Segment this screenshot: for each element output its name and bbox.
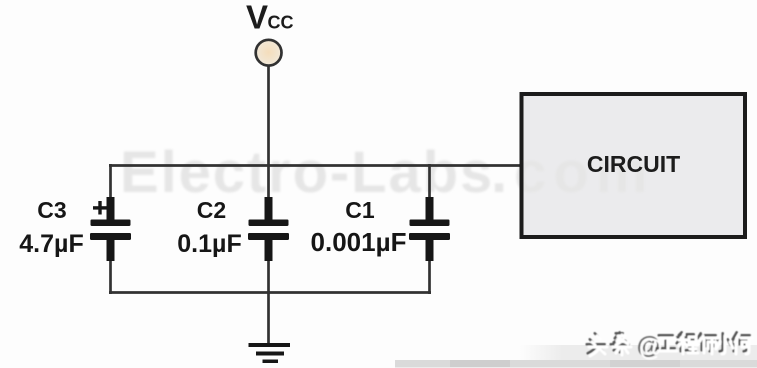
capacitor C2 [248,197,289,261]
net label Vcc [246,0,294,36]
svg-text:4.7µF: 4.7µF [19,230,83,258]
capacitor C1 [409,197,450,261]
wire ground drop [267,291,270,344]
svg-text:0.1µF: 0.1µF [177,230,241,258]
wire Vcc to C2 [267,66,270,200]
wire bottom bus [109,291,431,294]
svg-text:C3: C3 [37,197,66,223]
svg-text:@: @ [639,335,662,362]
svg-text:CC: CC [268,13,294,33]
wire C3 top lead [109,164,112,200]
wire C3 bottom lead [109,258,112,294]
wire C1 top lead [428,164,431,200]
svg-text:CIRCUIT: CIRCUIT [587,151,680,177]
capacitor C3 [90,197,131,261]
svg-text:C2: C2 [197,197,226,223]
block U1 CIRCUIT box [522,94,746,237]
wire top bus [109,164,523,167]
wire C2 bottom lead [267,258,270,294]
svg-text:C1: C1 [345,197,375,223]
svg-text:0.001µF: 0.001µF [311,227,407,257]
wire C1 bottom lead [428,258,431,294]
block U1 CIRCUIT box border [522,94,746,237]
svg-text:Electro-Labs: Electro-Labs [120,140,494,205]
node Vcc terminal [256,40,282,66]
ground [249,343,291,363]
polarity mark C3 [93,201,107,215]
svg-text:V: V [246,0,268,36]
